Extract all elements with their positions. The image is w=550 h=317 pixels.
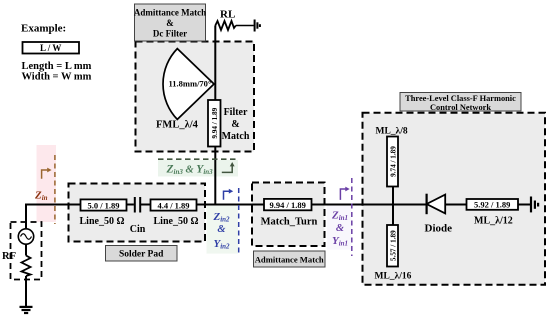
element ML_lambda/16 (5.57 / 1.89 vertical stub) [387, 225, 398, 267]
svg-text:9.94 / 1.89: 9.94 / 1.89 [270, 200, 306, 210]
svg-text:L / W: L / W [40, 43, 61, 53]
svg-text:&: & [336, 223, 345, 234]
radial stub FML_lambda/4 (fan) [163, 49, 214, 120]
label RF [2, 251, 16, 262]
capacitor Cin plates [135, 197, 140, 213]
dashed line blue vertical [238, 188, 240, 254]
label Line_50 ohm (right) [154, 216, 199, 227]
box: Solder Pad dashed box [69, 184, 206, 242]
element 9.94 / 1.89 (vertical, filter) [208, 100, 221, 147]
dashed line purple vertical [351, 178, 353, 256]
svg-text:Line_50 Ω: Line_50 Ω [154, 216, 199, 227]
wire: stub junction vertical [392, 187, 394, 226]
svg-text:ML_λ/8: ML_λ/8 [376, 127, 408, 137]
legend box L / W [23, 42, 80, 54]
label FML_lambda/4 [156, 120, 199, 131]
svg-text:Dc Filter: Dc Filter [153, 29, 187, 39]
wire: RL resistor to ground [236, 25, 254, 27]
wire: vertical from RL down to main line [214, 26, 216, 204]
element Line_50 ohm (5.0 / 1.89) [81, 199, 127, 210]
svg-text:Control Network: Control Network [430, 103, 491, 112]
wire: main horizontal line center [141, 204, 427, 206]
element Match_Turn (9.94 / 1.89) [264, 199, 312, 210]
node Zin1 & Yin1 label [331, 210, 348, 248]
box: Admittance Match dashed box [252, 183, 325, 247]
svg-text:5.0 / 1.89: 5.0 / 1.89 [87, 200, 119, 210]
svg-text:Width = W mm: Width = W mm [22, 72, 92, 83]
wire: main horizontal line right of diode [445, 204, 530, 206]
svg-text:Cin: Cin [130, 224, 146, 235]
dashed line brown vertical [54, 155, 56, 224]
svg-text:&: & [217, 224, 226, 235]
node Zin2 & Yin2 label [212, 211, 230, 251]
svg-text:9.74 / 1.89: 9.74 / 1.89 [390, 146, 398, 177]
svg-text:4.4 / 1.89: 4.4 / 1.89 [157, 200, 189, 210]
svg-text:Admittance Match: Admittance Match [134, 8, 206, 18]
label Line_50 ohm (left) [80, 216, 125, 227]
legend: Example text [21, 23, 66, 35]
element ML_lambda/8 (9.74 / 1.89 vertical stub) [387, 137, 398, 187]
svg-text:Admittance Match: Admittance Match [255, 254, 324, 264]
wire: main horizontal line left of capacitor [26, 204, 134, 206]
svg-text:RL: RL [220, 9, 235, 21]
svg-text:&: & [231, 119, 239, 130]
highlight band pink (Zin region) [37, 145, 57, 222]
svg-text:&: & [166, 18, 174, 28]
resistor below RF source [22, 256, 31, 277]
label Cin [130, 224, 146, 235]
label Diode [425, 223, 453, 235]
svg-text:Diode: Diode [425, 223, 453, 235]
ground (top right, horizontal) [255, 20, 260, 32]
element Line_50 ohm (4.4 / 1.89) [151, 199, 197, 210]
arrow green (up) [222, 162, 235, 172]
label box: Admittance Match [254, 251, 326, 267]
svg-text:Filter: Filter [224, 107, 248, 118]
svg-text:Three-Level Class-F Harmonic: Three-Level Class-F Harmonic [405, 94, 516, 103]
resistor RL (horizontal) [215, 21, 236, 30]
label box: Three-Level Class-F Harmonic Control Network [400, 93, 521, 112]
wire: left drop to RF source [25, 204, 27, 229]
diode D1 [427, 194, 446, 215]
wire: source to resistor [25, 244, 27, 255]
dashed box around RF source [11, 222, 42, 280]
svg-text:11.8mm/70°: 11.8mm/70° [169, 79, 212, 89]
svg-text:Line_50 Ω: Line_50 Ω [80, 216, 125, 227]
highlight band green (Zin3 region) [158, 160, 238, 177]
highlight band lavender (Zin1 region) [327, 206, 352, 250]
wire: resistor to ground [25, 276, 27, 306]
ground (right, horizontal) [531, 197, 538, 213]
label Match_Turn [261, 217, 318, 228]
highlight band mint (Zin2 region) [207, 206, 239, 254]
arrow brown (Zin) [42, 168, 52, 179]
label box: Solder Pad [106, 246, 178, 262]
svg-text:9.94 / 1.89: 9.94 / 1.89 [211, 107, 219, 138]
element ML_lambda/12 (5.92 / 1.89) [467, 199, 519, 210]
svg-text:RF: RF [2, 251, 16, 262]
label Filter & Match [222, 107, 250, 142]
node Zin3 & Yin3 label [166, 164, 214, 177]
label box: Admittance Match & Dc Filter [134, 4, 206, 41]
label RL [220, 9, 235, 21]
label ML_lambda/8 [376, 127, 408, 137]
ground (bottom left) [20, 307, 33, 313]
legend: Length = L mm [22, 61, 92, 72]
svg-text:5.92 / 1.89: 5.92 / 1.89 [474, 200, 510, 210]
svg-text:Solder Pad: Solder Pad [119, 250, 164, 260]
box: Three-Level Class-F Harmonic Control Network dashed box [363, 113, 546, 285]
dashed line green horizontal [158, 158, 239, 160]
box: Filter & Match dashed box [136, 42, 255, 152]
svg-text:5.57 / 1.89: 5.57 / 1.89 [390, 230, 398, 261]
svg-text:FML_λ/4: FML_λ/4 [156, 120, 199, 131]
source RF circle [18, 229, 33, 244]
legend: Width = W mm [22, 72, 92, 83]
arrow purple (Zin1) [340, 187, 349, 200]
arrow blue (Zin2) [224, 189, 234, 200]
label ML_lambda/16 [375, 272, 412, 282]
svg-text:Match: Match [222, 131, 250, 142]
svg-text:ML_λ/16: ML_λ/16 [375, 272, 412, 282]
svg-text:ML_λ/12: ML_λ/12 [474, 216, 513, 227]
svg-text:Length = L mm: Length = L mm [22, 61, 92, 72]
svg-text:Example:: Example: [21, 23, 66, 35]
node Zin label [34, 190, 48, 203]
label ML_lambda/12 [474, 216, 513, 227]
svg-text:Match_Turn: Match_Turn [261, 217, 318, 228]
label 11.8mm/70deg [169, 79, 212, 89]
